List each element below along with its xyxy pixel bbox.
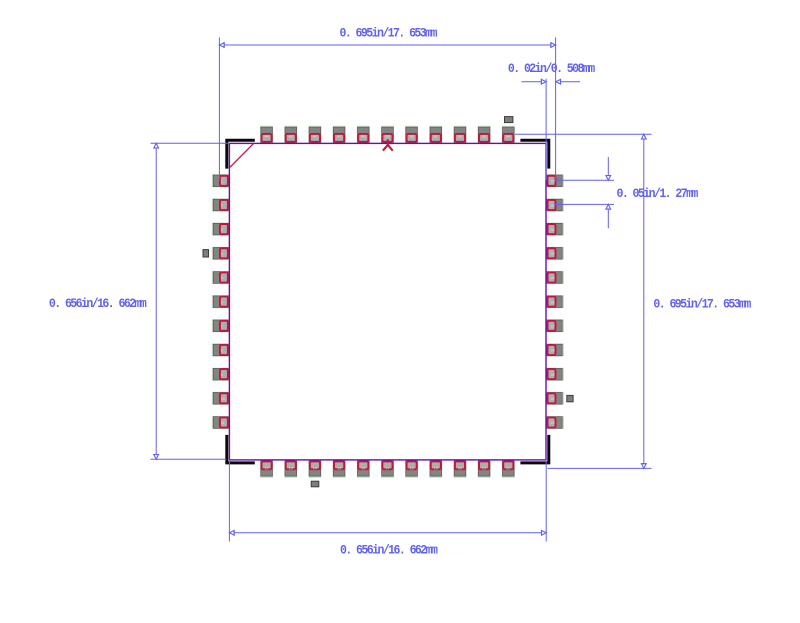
origin marker — [383, 139, 393, 150]
pad 30 (right column) — [546, 247, 564, 260]
pad 8 (left column) — [212, 344, 230, 357]
svg-text:12: 12 — [264, 466, 268, 470]
svg-text:14: 14 — [313, 466, 317, 470]
pad 19 (bottom row) — [429, 460, 442, 478]
corner mark bottom-left — [227, 435, 255, 463]
body outline (silkscreen square) — [229, 143, 546, 460]
pad 20 (bottom row) — [454, 460, 467, 478]
pad 13 (bottom row) — [284, 460, 297, 478]
pad 31 (right column) — [546, 223, 564, 236]
pad 43 (top row) — [284, 126, 297, 144]
svg-text:13: 13 — [289, 466, 293, 470]
pad 21 (bottom row) — [478, 460, 491, 478]
svg-text:25: 25 — [551, 373, 555, 377]
corner mark bottom-right — [520, 435, 548, 463]
svg-text:4: 4 — [221, 252, 223, 256]
svg-text:19: 19 — [434, 466, 438, 470]
pad 6 (left column) — [212, 295, 230, 308]
pad 9 (left column) — [212, 368, 230, 381]
pad 7 (left column) — [212, 319, 230, 332]
pad 28 (right column) — [546, 295, 564, 308]
pad 5 (left column) — [212, 271, 230, 284]
svg-text:0. 695in/17. 653mm: 0. 695in/17. 653mm — [653, 297, 751, 312]
svg-text:22: 22 — [506, 466, 510, 470]
pad 16 (bottom row) — [357, 460, 370, 478]
svg-text:2: 2 — [221, 204, 223, 208]
pad 38 (top row) — [405, 126, 418, 144]
svg-text:17: 17 — [385, 466, 389, 470]
pin-1 chamfer line — [230, 144, 254, 168]
svg-text:10: 10 — [221, 397, 225, 401]
pad 4 (left column) — [212, 247, 230, 260]
svg-text:43: 43 — [289, 134, 293, 138]
corner mark top-left — [227, 140, 255, 168]
svg-text:6: 6 — [221, 300, 223, 304]
pad 24 (right column) — [546, 392, 564, 405]
pad 3 (left column) — [212, 223, 230, 236]
fiducial square bottom — [311, 481, 319, 487]
svg-text:39: 39 — [385, 134, 389, 138]
pad 36 (top row) — [454, 126, 467, 144]
pad 35 (top row) — [478, 126, 491, 144]
svg-text:20: 20 — [458, 466, 462, 470]
svg-text:5: 5 — [221, 276, 223, 280]
pad 32 (right column) — [546, 199, 564, 212]
svg-text:9: 9 — [221, 373, 223, 377]
svg-text:16: 16 — [361, 466, 365, 470]
svg-text:30: 30 — [551, 252, 555, 256]
fiducial square left — [203, 250, 209, 257]
pad 23 (right column) — [546, 416, 564, 429]
svg-text:44: 44 — [264, 134, 268, 138]
pad 41 (top row) — [333, 126, 346, 144]
pad 17 (bottom row) — [381, 460, 394, 478]
pad 15 (bottom row) — [333, 460, 346, 478]
svg-text:27: 27 — [551, 325, 555, 329]
svg-text:28: 28 — [551, 300, 555, 304]
bottom dimension 0.656in/16.662mm — [229, 461, 546, 558]
svg-text:11: 11 — [221, 421, 225, 425]
top dimension 0.695in/17.653mm — [219, 26, 555, 180]
svg-text:23: 23 — [551, 421, 555, 425]
pad 42 (top row) — [308, 126, 321, 144]
pad 1 (left column) — [212, 174, 230, 187]
svg-text:35: 35 — [482, 134, 486, 138]
left dimension 0.656in/16.662mm — [49, 143, 230, 459]
svg-text:24: 24 — [551, 397, 555, 401]
pad 25 (right column) — [546, 368, 564, 381]
pad 29 (right column) — [546, 271, 564, 284]
svg-text:40: 40 — [361, 134, 365, 138]
svg-text:26: 26 — [551, 349, 555, 353]
pad 33 (right column) — [546, 174, 564, 187]
pad 40 (top row) — [357, 126, 370, 144]
svg-text:3: 3 — [221, 228, 223, 232]
svg-text:0. 656in/16. 662mm: 0. 656in/16. 662mm — [340, 543, 438, 558]
svg-text:18: 18 — [409, 466, 413, 470]
svg-text:0. 656in/16. 662mm: 0. 656in/16. 662mm — [49, 296, 147, 311]
svg-text:41: 41 — [337, 134, 341, 138]
pitch dimension 0.05in/1.27mm — [554, 157, 698, 228]
fiducial square top-right — [505, 117, 513, 123]
pad 22 (bottom row) — [502, 460, 515, 478]
svg-text:31: 31 — [551, 228, 555, 232]
svg-text:36: 36 — [458, 134, 462, 138]
pad-length dimension 0.02in/0.508mm — [508, 61, 595, 180]
svg-text:1: 1 — [221, 180, 223, 184]
svg-text:0. 05in/1. 27mm: 0. 05in/1. 27mm — [617, 186, 699, 201]
pad 10 (left column) — [212, 392, 230, 405]
right dimension 0.695in/17.653mm — [515, 134, 751, 468]
pad 14 (bottom row) — [308, 460, 321, 478]
svg-text:38: 38 — [409, 134, 413, 138]
svg-text:33: 33 — [551, 180, 555, 184]
corner mark top-right — [520, 140, 548, 168]
svg-text:42: 42 — [313, 134, 317, 138]
pad 44 (top row) — [260, 126, 273, 144]
svg-text:21: 21 — [482, 466, 486, 470]
svg-text:0. 02in/0. 508mm: 0. 02in/0. 508mm — [508, 61, 595, 76]
fiducial square right — [567, 395, 573, 401]
pad 37 (top row) — [429, 126, 442, 144]
pad 39 (top row) — [381, 126, 394, 144]
pad 27 (right column) — [546, 319, 564, 332]
svg-text:0. 695in/17. 653mm: 0. 695in/17. 653mm — [340, 26, 438, 41]
pad 18 (bottom row) — [405, 460, 418, 478]
pad 11 (left column) — [212, 416, 230, 429]
pad 26 (right column) — [546, 344, 564, 357]
svg-text:34: 34 — [506, 134, 510, 138]
svg-text:8: 8 — [221, 349, 223, 353]
svg-text:15: 15 — [337, 466, 341, 470]
svg-text:29: 29 — [551, 276, 555, 280]
svg-text:37: 37 — [434, 134, 438, 138]
pad 2 (left column) — [212, 199, 230, 212]
pad 34 (top row) — [502, 126, 515, 144]
svg-text:7: 7 — [221, 325, 223, 329]
pad 12 (bottom row) — [260, 460, 273, 478]
